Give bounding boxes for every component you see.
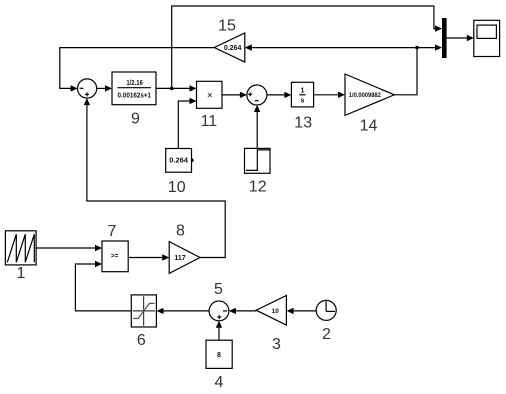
- wire gain 8 loop up to sum 1 bottom: [87, 105, 225, 258]
- gain block 3: [256, 295, 286, 325]
- wire gain 3 to sum 5: [235, 310, 257, 312]
- label 12: [249, 179, 267, 196]
- integrator block 13: [291, 82, 313, 107]
- label 6: [137, 332, 146, 349]
- wire constant 4 to sum 5 bottom: [218, 327, 220, 341]
- wire branch from node A up over the top to mux input 1: [172, 6, 436, 88]
- sum S5: [209, 301, 229, 321]
- svg-text:10: 10: [168, 179, 186, 196]
- sawtooth source block 1: [5, 231, 36, 265]
- svg-text:12: 12: [249, 179, 267, 196]
- svg-text:13: 13: [294, 115, 312, 132]
- svg-text:1/0.0009882: 1/0.0009882: [349, 92, 381, 99]
- gain block 15: [214, 33, 245, 62]
- wire gain 15 output to sum 1: [60, 48, 215, 89]
- wire sum 1 to block 9: [97, 87, 107, 89]
- label 11: [201, 113, 218, 130]
- wire feedback row right to mux input 2: [417, 47, 436, 49]
- arrowhead mux input 2: [435, 44, 442, 50]
- svg-text:1: 1: [17, 265, 26, 282]
- wire saturation 6 to block 7 input 2: [75, 264, 131, 311]
- arrowhead into sum 5 bottom: [216, 321, 222, 328]
- arrowhead into product 11 input 2: [190, 98, 197, 104]
- svg-text:117: 117: [174, 255, 185, 262]
- svg-text:10: 10: [272, 308, 280, 315]
- constant block 10: [166, 149, 194, 173]
- mux bar: [442, 18, 447, 58]
- label 3: [272, 336, 281, 353]
- label 15: [218, 17, 236, 34]
- svg-text:0.00162s+1: 0.00162s+1: [118, 92, 152, 99]
- product block 11: [197, 81, 223, 108]
- arrowhead into block 9: [105, 85, 112, 91]
- clock block 2: [316, 300, 336, 320]
- arrowhead into integrator 13: [284, 92, 291, 98]
- arrowhead into gain 3: [287, 308, 294, 314]
- arrowhead into gain 15: [245, 44, 252, 50]
- label 8: [176, 223, 185, 240]
- svg-text:8: 8: [176, 223, 185, 240]
- label 5: [214, 281, 223, 298]
- wire sum 5 to saturation 6: [162, 310, 209, 312]
- wire step 12 to sum 2 bottom: [256, 111, 258, 148]
- wire from gain 14 output up to feedback row: [394, 48, 417, 95]
- svg-text:s: s: [300, 97, 304, 104]
- svg-text:2: 2: [322, 326, 331, 343]
- label 7: [108, 223, 117, 240]
- label 4: [214, 374, 223, 391]
- label 9: [131, 111, 140, 128]
- svg-text:5: 5: [214, 281, 223, 298]
- scope block: [474, 20, 500, 56]
- arrowhead mux input 1: [435, 25, 442, 31]
- arrowhead into saturation 6: [157, 308, 164, 314]
- svg-text:15: 15: [218, 17, 236, 34]
- constant block 4: [206, 340, 232, 368]
- svg-text:6: 6: [137, 332, 146, 349]
- sum S1: [78, 79, 97, 98]
- arrowhead into block 7 input 2: [95, 261, 102, 267]
- wire integrator 13 to gain 14: [314, 94, 340, 96]
- saturation block 6: [131, 295, 156, 327]
- arrowhead into gain 8: [162, 254, 169, 260]
- gain block 8: [169, 242, 200, 274]
- node A (junction dot on wire 9 to 11): [170, 87, 174, 91]
- arrowhead into sum 1 bottom: [84, 98, 90, 105]
- arrowhead into gain 14: [338, 92, 345, 98]
- label 10: [168, 179, 186, 196]
- label 2: [322, 326, 331, 343]
- svg-text:0.264: 0.264: [169, 156, 189, 165]
- svg-text:>=: >=: [111, 253, 119, 260]
- svg-text:×: ×: [207, 91, 213, 102]
- arrowhead into block 7 input 1: [95, 245, 102, 251]
- svg-text:9: 9: [131, 111, 140, 128]
- wire block 7 to gain 8: [128, 257, 163, 259]
- node B (junction dot on feedback row): [415, 46, 419, 50]
- svg-text:1/2.16: 1/2.16: [126, 80, 143, 87]
- label 1: [17, 265, 26, 282]
- transfer function block 9: [112, 72, 156, 105]
- svg-text:14: 14: [360, 117, 378, 134]
- relational operator block 7: [102, 241, 128, 272]
- step block 12: [245, 148, 271, 173]
- arrowhead into sum 5 right: [229, 308, 236, 314]
- svg-text:11: 11: [201, 113, 218, 130]
- wire block 1 to relational operator 7: [36, 247, 96, 249]
- label 13: [294, 115, 312, 132]
- arrowhead into product 11 input 1: [190, 85, 197, 91]
- arrowhead into sum 2 left: [240, 92, 247, 98]
- svg-text:3: 3: [272, 336, 281, 353]
- svg-text:8: 8: [217, 352, 221, 359]
- arrowhead into scope: [467, 35, 474, 41]
- wire sum 2 to integrator 13: [267, 94, 286, 96]
- svg-text:0.264: 0.264: [224, 45, 242, 52]
- wire clock 2 to gain 3: [294, 310, 317, 312]
- arrowhead into sum 2 bottom: [254, 105, 260, 112]
- wire block 9 to product 11: [156, 87, 191, 89]
- svg-text:4: 4: [214, 374, 223, 391]
- wire mux to scope: [447, 37, 469, 39]
- svg-text:1: 1: [300, 88, 304, 95]
- arrowhead into sum 1 left: [71, 85, 78, 91]
- label 14: [360, 117, 378, 134]
- svg-text:7: 7: [108, 223, 117, 240]
- sum S2: [247, 85, 267, 105]
- wire feedback row left into gain 15: [252, 47, 418, 49]
- wire block 10 to product 11 input 2: [178, 101, 191, 149]
- wire product 11 to sum 2: [222, 94, 242, 96]
- gain block 14: [345, 74, 394, 115]
